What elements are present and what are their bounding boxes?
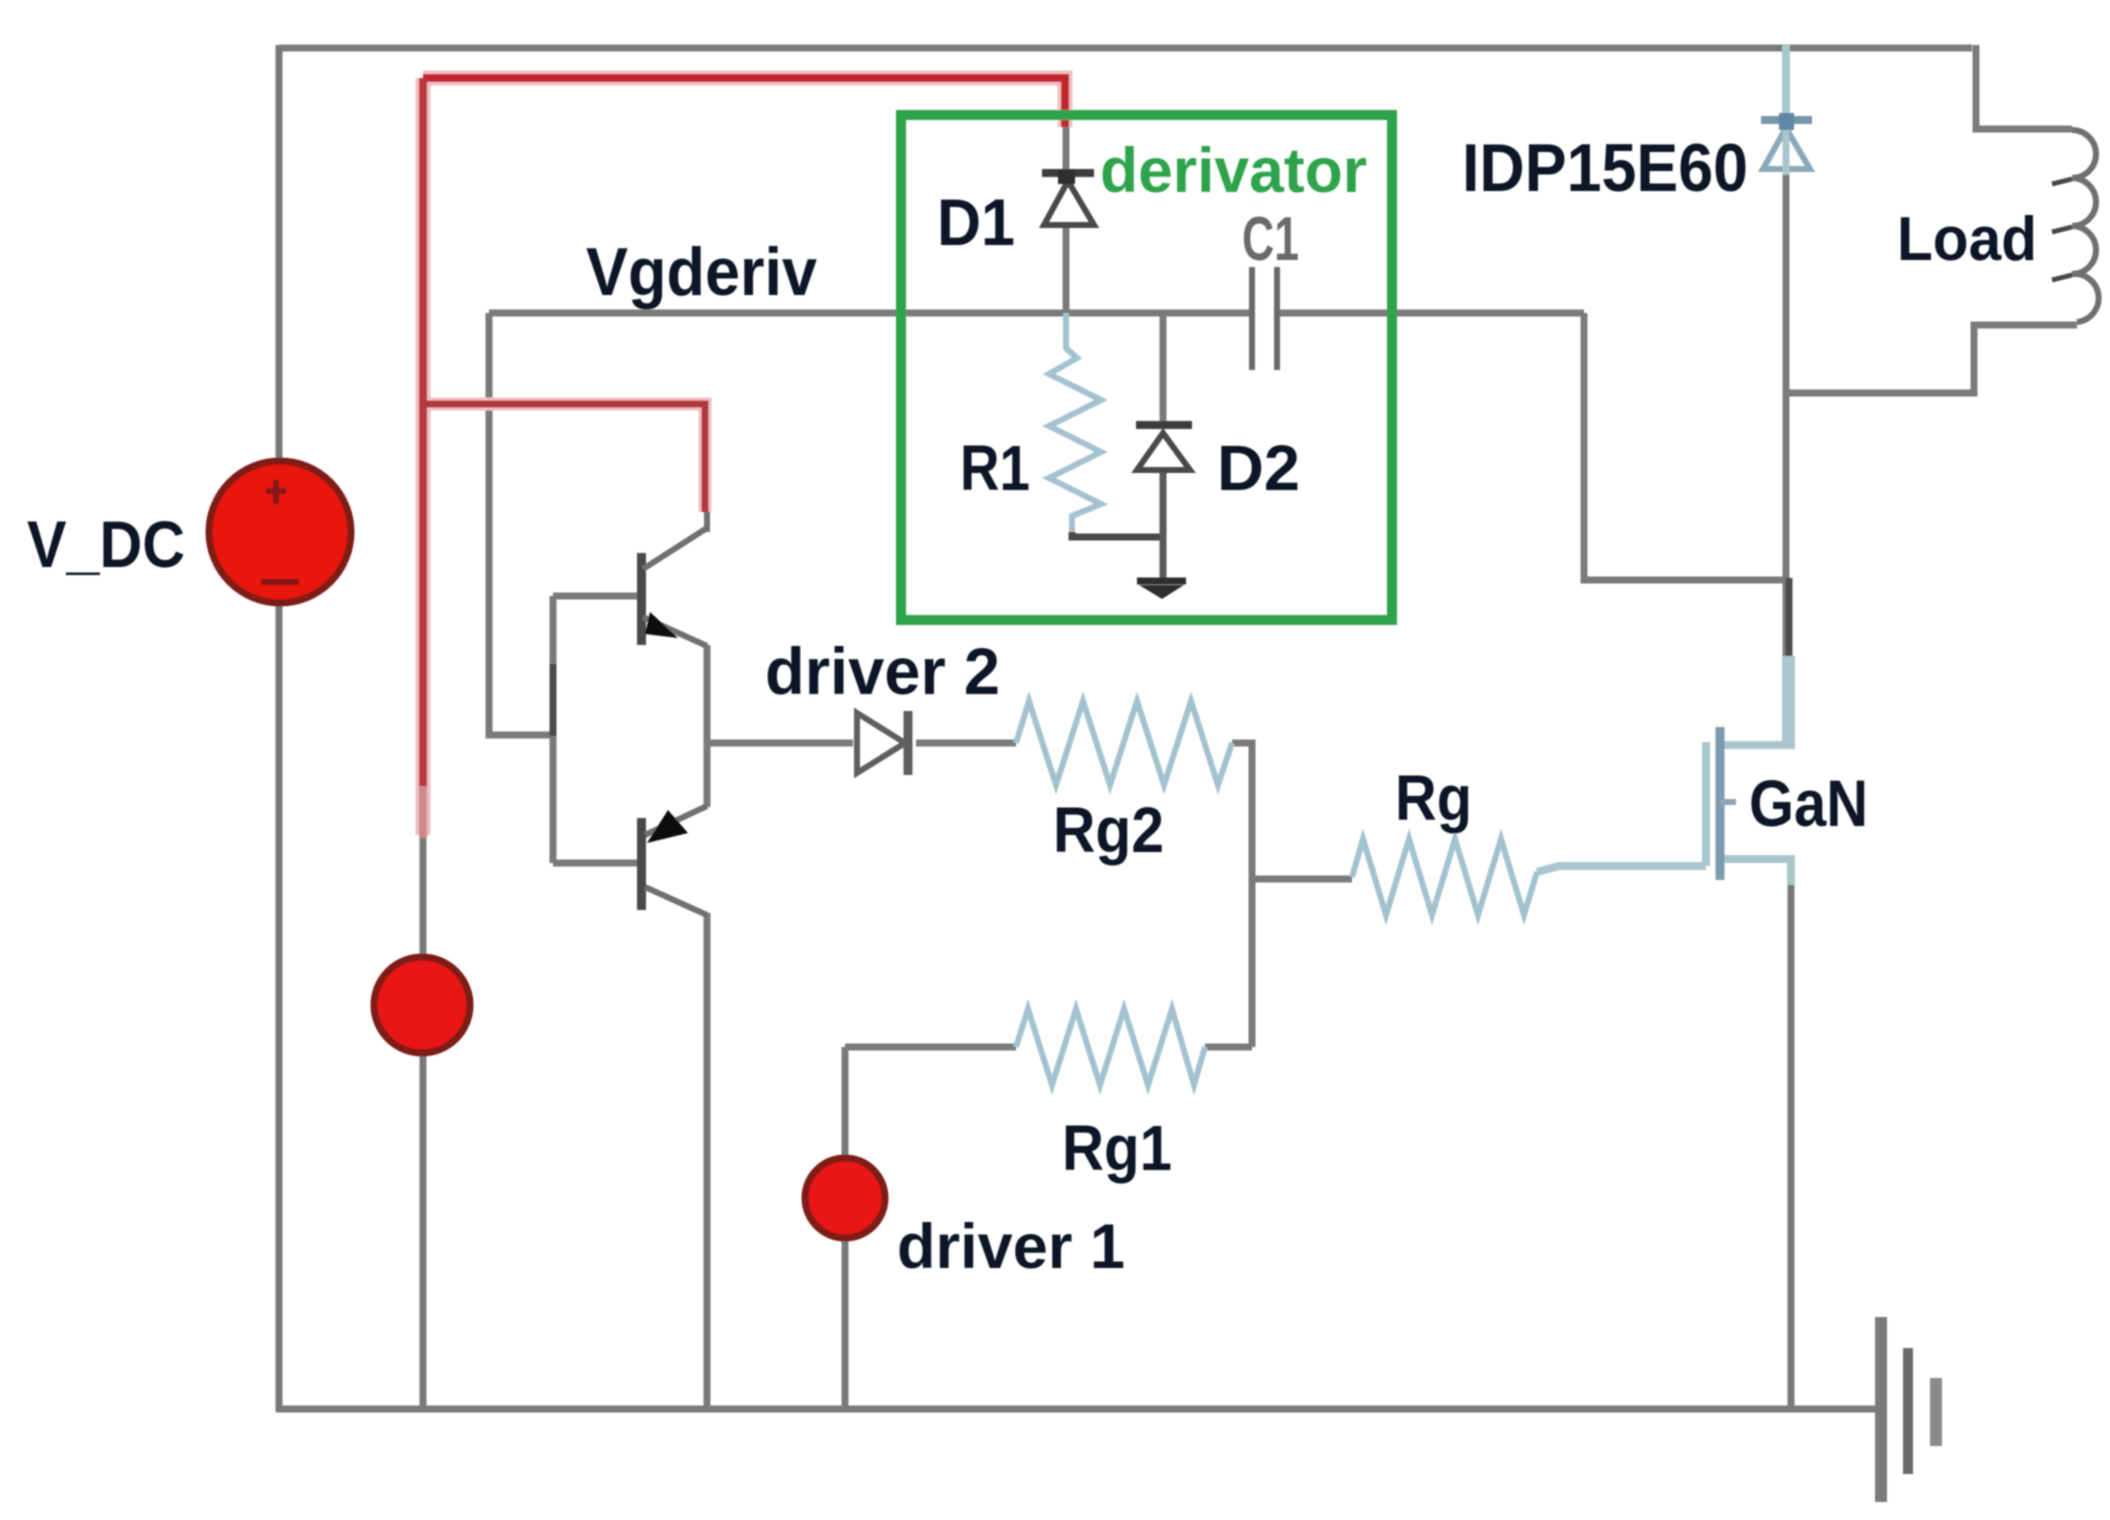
svg-text:C1: C1 <box>1242 205 1299 274</box>
svg-text:Rg2: Rg2 <box>1053 794 1164 866</box>
svg-text:Vgderiv: Vgderiv <box>586 234 817 310</box>
svg-text:Load: Load <box>1897 205 2037 274</box>
svg-text:D2: D2 <box>1217 432 1300 504</box>
svg-text:Rg1: Rg1 <box>1062 1112 1172 1184</box>
svg-text:D1: D1 <box>937 185 1015 259</box>
svg-text:driver 2: driver 2 <box>765 634 1000 708</box>
svg-text:derivator: derivator <box>1100 136 1367 206</box>
svg-text:V_DC: V_DC <box>27 507 185 581</box>
svg-text:driver 1: driver 1 <box>897 1212 1125 1282</box>
svg-text:GaN: GaN <box>1749 766 1868 840</box>
svg-text:Rg: Rg <box>1395 762 1472 834</box>
svg-text:R1: R1 <box>960 432 1030 504</box>
svg-text:IDP15E60: IDP15E60 <box>1462 130 1748 206</box>
